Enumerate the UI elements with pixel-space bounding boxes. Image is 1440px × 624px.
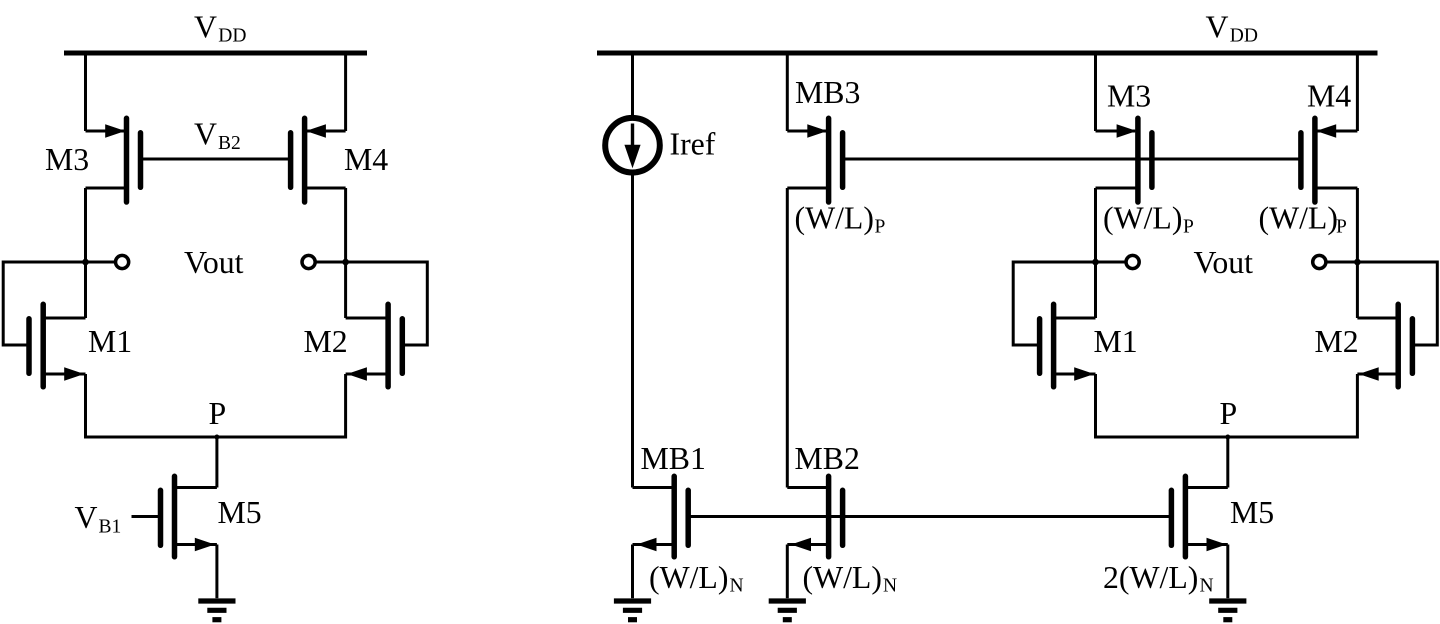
- ground under M5 (right): [1209, 601, 1246, 620]
- svg-text:Vout: Vout: [1194, 245, 1254, 280]
- svg-text:M2: M2: [304, 324, 348, 359]
- wire VB2 gate wire: [141, 158, 291, 161]
- svg-text:M3: M3: [1107, 79, 1151, 114]
- wire M1 source drop: [84, 374, 87, 439]
- wire MB3 drain drop to MB2: [786, 188, 789, 488]
- transistor M4 (right): [1301, 118, 1358, 202]
- wire Iref drop from rail: [631, 51, 634, 118]
- wire MB1 source drop to ground: [631, 545, 634, 599]
- svg-text:M4: M4: [344, 142, 388, 177]
- wire Iref to MB1 drain: [631, 173, 634, 488]
- transistor M3 (right): [1096, 118, 1152, 202]
- wire MB3 source drop: [786, 51, 789, 132]
- wire M1 gate feedback loop: [3, 262, 85, 345]
- power rail VDD (right): [597, 51, 1378, 56]
- svg-text:P: P: [1220, 396, 1238, 431]
- svg-text:MB2: MB2: [795, 441, 860, 476]
- wire tail rail node P (left): [86, 436, 346, 439]
- svg-text:P: P: [1336, 216, 1347, 237]
- node junction dot right output: [342, 259, 349, 266]
- wire M1 drain rise (right): [1094, 262, 1097, 318]
- wire M2 gate feedback loop (right): [1357, 262, 1437, 345]
- ground (left): [198, 601, 235, 620]
- ground under MB1: [614, 601, 651, 620]
- svg-text:V: V: [194, 117, 217, 152]
- svg-text:P: P: [875, 216, 886, 237]
- svg-text:M4: M4: [1307, 79, 1351, 114]
- svg-text:N: N: [1200, 576, 1214, 597]
- wire M1 drain rise: [84, 262, 87, 318]
- transistor M1 (right): [1040, 304, 1096, 387]
- ground under MB2: [769, 601, 806, 620]
- svg-text:V: V: [75, 500, 98, 535]
- transistor MB1: [633, 476, 689, 557]
- svg-text:B2: B2: [218, 133, 241, 154]
- svg-text:V: V: [194, 10, 217, 45]
- wire P drop to M5 (right): [1226, 437, 1229, 488]
- current source Iref: [605, 118, 660, 173]
- wire to right output terminal (right circuit): [1327, 261, 1357, 264]
- transistor MB3: [787, 118, 842, 202]
- wire P drop to M5: [215, 437, 218, 488]
- svg-text:2(W/L): 2(W/L): [1103, 560, 1198, 595]
- transistor M3: [86, 118, 141, 202]
- svg-text:Iref: Iref: [670, 127, 716, 162]
- svg-text:M5: M5: [218, 495, 262, 530]
- svg-text:M1: M1: [88, 324, 132, 359]
- wire M3 drain drop: [84, 188, 87, 262]
- wire M5 source drop to ground: [215, 545, 218, 599]
- svg-text:(W/L): (W/L): [795, 201, 874, 236]
- node left output terminal circle: [116, 255, 129, 268]
- svg-text:M5: M5: [1230, 495, 1274, 530]
- node junction dot left output (right circuit): [1092, 259, 1099, 266]
- node P junction dot (left): [214, 435, 219, 440]
- svg-text:(W/L): (W/L): [1259, 201, 1338, 236]
- wire M2 source drop (right): [1356, 374, 1359, 439]
- wire to left output terminal (right circuit): [1096, 261, 1125, 264]
- wire gate bus MB3-M3-M4: [843, 158, 1301, 161]
- transistor M1: [29, 304, 86, 387]
- svg-text:P: P: [209, 396, 227, 431]
- wire to left output terminal: [86, 261, 115, 264]
- wire M3 source drop (right): [1094, 51, 1097, 132]
- svg-text:N: N: [883, 576, 897, 597]
- wire tail rail node P (right): [1096, 436, 1358, 439]
- transistor M4: [291, 118, 346, 202]
- wire M3 drain drop (right): [1094, 188, 1097, 262]
- svg-text:DD: DD: [218, 25, 246, 46]
- wire M1 source drop (right): [1094, 374, 1097, 439]
- transistor M5 (left): [132, 476, 217, 557]
- wire M4 source drop (right): [1356, 51, 1359, 132]
- wire M2 source drop: [344, 374, 347, 439]
- svg-text:B1: B1: [99, 516, 122, 537]
- svg-text:Vout: Vout: [184, 245, 244, 280]
- wire M2 drain rise (right): [1356, 262, 1359, 318]
- wire M1 gate feedback loop (right): [1013, 262, 1095, 345]
- wire gate bus MB1-MB2-M5: [688, 515, 1171, 518]
- node left output terminal circle (right circuit): [1126, 255, 1139, 268]
- svg-text:(W/L): (W/L): [1103, 201, 1182, 236]
- svg-text:(W/L): (W/L): [803, 560, 882, 595]
- wire MB2 source drop to ground: [786, 545, 789, 599]
- wire M4 source drop: [344, 51, 347, 132]
- wire M5 source drop to ground (right): [1226, 545, 1229, 599]
- node right output terminal circle: [302, 255, 315, 268]
- svg-text:MB1: MB1: [641, 441, 706, 476]
- transistor M2 (right): [1357, 304, 1412, 387]
- svg-text:M3: M3: [45, 142, 89, 177]
- svg-text:P: P: [1183, 216, 1194, 237]
- power rail VDD (left): [64, 51, 367, 56]
- wire M2 drain rise: [344, 262, 347, 318]
- wire M3 source drop: [84, 51, 87, 132]
- wire M4 drain drop (right): [1356, 188, 1359, 262]
- node P junction dot (right): [1225, 435, 1230, 440]
- node junction dot right output (right circuit): [1354, 259, 1361, 266]
- transistor M2: [346, 304, 403, 387]
- svg-text:(W/L): (W/L): [649, 560, 728, 595]
- wire M4 drain drop: [344, 188, 347, 262]
- svg-text:M1: M1: [1094, 324, 1138, 359]
- svg-text:N: N: [730, 576, 744, 597]
- node junction dot left output: [82, 259, 89, 266]
- svg-text:M2: M2: [1315, 324, 1359, 359]
- transistor MB2: [787, 476, 842, 557]
- svg-text:V: V: [1206, 10, 1229, 45]
- svg-text:DD: DD: [1230, 25, 1258, 46]
- svg-text:MB3: MB3: [795, 75, 860, 110]
- transistor M5 (right): [1171, 476, 1227, 557]
- wire M2 gate feedback loop: [346, 262, 428, 345]
- wire to right output terminal: [316, 261, 345, 264]
- node right output terminal circle (right circuit): [1313, 255, 1326, 268]
